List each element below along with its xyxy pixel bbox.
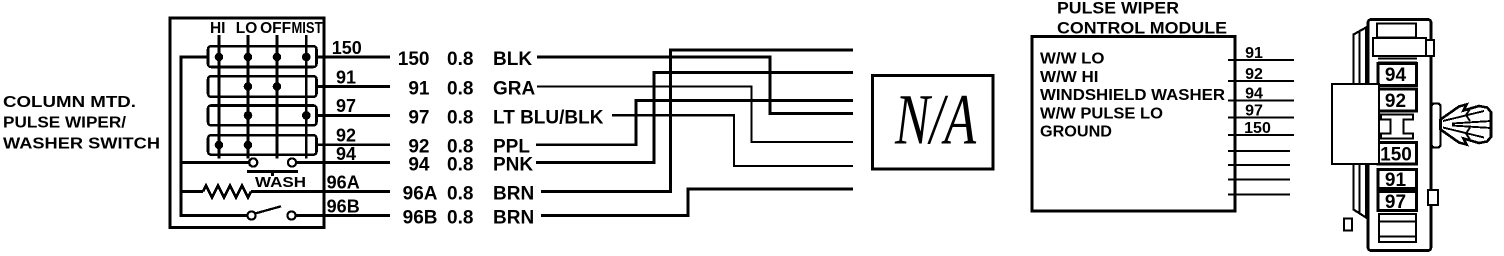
svg-text:HI: HI [210, 20, 226, 37]
wire 97 to label [317, 114, 391, 117]
wire spec 96B 0.8 BRN [403, 208, 535, 229]
svg-text:96A: 96A [403, 184, 438, 205]
wire 96A to label [251, 190, 390, 193]
resistor R (pulse delay) [203, 186, 251, 198]
svg-text:BLK: BLK [493, 49, 532, 70]
switch contact row 91 [208, 76, 317, 97]
svg-text:92: 92 [336, 126, 356, 146]
connector cavity 94 [1378, 64, 1417, 86]
wire 91 to label [317, 85, 391, 88]
svg-text:CONTROL MODULE: CONTROL MODULE [1057, 20, 1227, 38]
svg-text:OFF: OFF [260, 20, 291, 37]
svg-text:LT BLU/BLK: LT BLU/BLK [493, 107, 604, 128]
svg-text:BRN: BRN [493, 184, 534, 205]
switch contact row 92 [208, 135, 317, 154]
contact dots row 150 [215, 53, 311, 62]
contact dots row 97 [244, 111, 311, 120]
svg-text:91: 91 [336, 68, 356, 88]
internal feed wire [181, 57, 247, 216]
switch column lines [219, 35, 306, 159]
wire branch to washer contact [181, 161, 249, 164]
switch contact row 97 [208, 106, 317, 126]
module spare pin stub 3 [1228, 178, 1290, 180]
svg-text:97: 97 [1385, 192, 1406, 213]
wire spec 96A 0.8 BRN [403, 184, 535, 205]
pulse wiper control module box [1032, 37, 1235, 212]
svg-text:94: 94 [1385, 65, 1407, 86]
svg-text:97: 97 [336, 96, 356, 116]
connector cavity 92 [1378, 89, 1417, 111]
svg-text:PULSE WIPER: PULSE WIPER [1057, 0, 1179, 18]
N/A box [873, 76, 994, 170]
connector C1 top right tab [1426, 40, 1434, 56]
wash switch contact left [247, 211, 255, 219]
svg-text:MIST: MIST [292, 20, 323, 37]
connector I-beam key [1381, 115, 1413, 139]
svg-text:WASHER SWITCH: WASHER SWITCH [3, 135, 160, 152]
svg-text:GROUND: GROUND [1040, 124, 1112, 141]
svg-text:PNK: PNK [493, 155, 533, 176]
svg-text:0.8: 0.8 [447, 155, 473, 176]
wire 96B BRN run [541, 189, 853, 216]
svg-text:94: 94 [336, 144, 356, 164]
svg-text:LO: LO [236, 20, 258, 37]
svg-text:COLUMN MTD.: COLUMN MTD. [3, 94, 136, 111]
wire branch to resistor [181, 190, 203, 193]
svg-text:150: 150 [1244, 120, 1271, 137]
switch position labels HI LO OFF MIST [210, 20, 323, 37]
wire 150 to label [317, 56, 391, 59]
svg-text:WASH: WASH [255, 174, 306, 191]
connector bottom cell [1379, 214, 1416, 242]
module pin stub 97 [1228, 116, 1294, 118]
svg-text:92: 92 [1385, 91, 1406, 112]
washer contact right [288, 158, 296, 166]
switch contact row 150 [208, 46, 317, 67]
module spare pin stub 2 [1228, 164, 1290, 166]
svg-text:150: 150 [398, 49, 430, 70]
wire spec 91 0.8 GRA [408, 79, 535, 100]
svg-text:96B: 96B [403, 208, 438, 229]
svg-text:91: 91 [1245, 45, 1263, 62]
contact dots row 91 [244, 82, 282, 91]
svg-text:150: 150 [332, 38, 362, 58]
svg-text:0.8: 0.8 [447, 208, 473, 229]
svg-text:150: 150 [1380, 145, 1412, 166]
svg-text:96B: 96B [327, 197, 360, 217]
svg-text:97: 97 [408, 107, 429, 128]
connector left mounting tab [1332, 84, 1379, 164]
push clip tree [1441, 105, 1492, 145]
svg-text:94: 94 [408, 155, 430, 176]
wire PNK run [536, 73, 853, 163]
svg-text:N/A: N/A [894, 80, 976, 160]
svg-text:91: 91 [408, 79, 430, 100]
wire 94 to label [296, 161, 390, 164]
svg-text:92: 92 [1245, 66, 1263, 83]
connector C1 top cell [1377, 24, 1416, 38]
svg-text:91: 91 [1385, 170, 1407, 191]
connector bottom right tab [1428, 190, 1438, 205]
svg-text:96A: 96A [327, 173, 360, 193]
module pin stub 94 [1228, 99, 1294, 101]
WASH actuator bar [247, 172, 298, 177]
push clip inner ribs [1443, 109, 1491, 140]
svg-text:W/W LO: W/W LO [1040, 51, 1105, 68]
connector C1 left latch plate [1354, 28, 1367, 218]
module pin stub 150 [1228, 134, 1294, 136]
svg-text:94: 94 [1245, 85, 1263, 102]
wash switch blade [256, 206, 282, 213]
module spare pin stub 1 [1228, 150, 1290, 152]
module pin stub 92 [1228, 80, 1294, 82]
push clip base [1432, 104, 1441, 148]
connector cavity 150 [1378, 143, 1417, 165]
connector C1 divider lines [1378, 59, 1417, 63]
wire GRA run [537, 87, 853, 143]
svg-text:97: 97 [1245, 102, 1263, 119]
contact dots row 92 [215, 141, 253, 150]
svg-text:PULSE WIPER/: PULSE WIPER/ [3, 115, 127, 132]
svg-text:GRA: GRA [493, 79, 536, 100]
svg-text:0.8: 0.8 [447, 79, 473, 100]
wire spec 94 0.8 PNK [408, 155, 533, 176]
svg-text:0.8: 0.8 [447, 184, 473, 205]
svg-text:0.8: 0.8 [447, 49, 473, 70]
left caption COLUMN MTD. PULSE WIPER/ WASHER SWITCH [3, 94, 160, 152]
washer contact left [249, 158, 257, 166]
svg-text:0.8: 0.8 [447, 107, 473, 128]
wash switch contact right [287, 211, 295, 219]
module heading PULSE WIPER CONTROL MODULE [1057, 0, 1227, 38]
module spare pin stub 4 [1228, 193, 1290, 195]
wire LT BLU/BLK run [612, 115, 853, 166]
connector C1 body [1368, 20, 1431, 251]
wire 92 to label [317, 143, 391, 146]
connector cavity 91 [1378, 170, 1417, 189]
wire PPL run [536, 101, 853, 145]
switch outer box [170, 18, 324, 228]
svg-text:BRN: BRN [493, 208, 534, 229]
wire spec 92 0.8 PPL [408, 137, 530, 158]
wire spec 150 0.8 BLK [398, 49, 533, 70]
connector cavity 97 [1378, 192, 1417, 211]
wire 96B to label [296, 214, 390, 217]
svg-text:W/W PULSE LO: W/W PULSE LO [1040, 105, 1163, 122]
svg-text:W/W HI: W/W HI [1040, 69, 1099, 86]
connector bottom left latch detail [1344, 219, 1352, 231]
module pin stub 91 [1228, 59, 1294, 61]
connector C1 upper band [1373, 38, 1426, 56]
svg-text:WINDSHIELD WASHER: WINDSHIELD WASHER [1040, 87, 1225, 104]
wire 96A BRN run [541, 50, 853, 192]
wire spec 97 0.8 LT BLU/BLK [408, 107, 603, 128]
wire BLK run [537, 57, 853, 114]
